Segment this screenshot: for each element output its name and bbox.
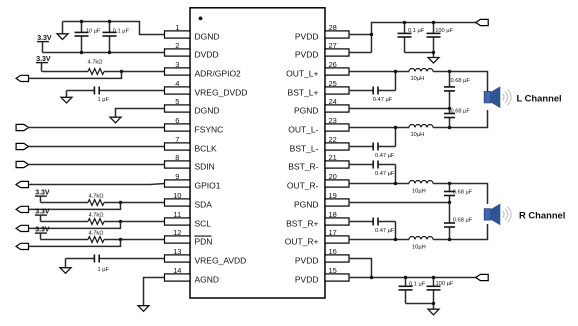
connector SDIN (off-page input) bbox=[16, 161, 28, 167]
speaker (R Channel) bbox=[484, 204, 511, 226]
wire: pin 24 PGND bbox=[349, 108, 450, 110]
svg-text:10µH: 10µH bbox=[412, 245, 426, 251]
resistor 4.7k (ADR/GPIO2 pull-up) bbox=[88, 60, 104, 75]
ground (VREG_AVDD filter) bbox=[60, 259, 71, 274]
node: PGND junction (R) bbox=[448, 201, 451, 204]
inductor L2 10uH (OUT_L-) bbox=[409, 125, 433, 138]
wire: pin 23 OUT_L- to inductor bbox=[349, 127, 409, 129]
capacitor C5 0.1 uF (PVDD top) bbox=[398, 23, 425, 53]
wire: cap bottoms to ground (top) bbox=[405, 53, 434, 58]
svg-text:100 µF: 100 µF bbox=[436, 281, 454, 287]
wire: OUT_L- filtered node to speaker (-) bbox=[433, 110, 488, 128]
svg-text:17: 17 bbox=[329, 228, 337, 237]
svg-text:23: 23 bbox=[329, 116, 337, 125]
connector BCLK (off-page input) bbox=[16, 143, 28, 149]
svg-text:DVDD: DVDD bbox=[195, 49, 219, 59]
wire: ADR connector to junction bbox=[29, 72, 122, 79]
connector ADR/GPIO2 (off-page, left) bbox=[16, 75, 28, 81]
svg-text:22: 22 bbox=[329, 135, 337, 144]
svg-text:14: 14 bbox=[173, 266, 181, 275]
svg-text:19: 19 bbox=[329, 191, 337, 200]
ground (VREG_DVDD filter) bbox=[61, 91, 72, 103]
connector PDN (off-page, left) bbox=[16, 243, 28, 249]
svg-text:0.68 µF: 0.68 µF bbox=[453, 190, 473, 196]
wire: cap bottoms to ground (bottom) bbox=[406, 304, 434, 310]
wire: 3.3V to resistor to pin 11 bbox=[41, 221, 165, 223]
wire: OUT_R+ filtered node to speaker (+) bbox=[433, 224, 488, 240]
svg-text:0.68 µF: 0.68 µF bbox=[451, 109, 471, 115]
pin 12 (PDN) stub, number and name bbox=[165, 228, 213, 246]
pin 8 (SDIN) stub, number and name bbox=[165, 153, 215, 171]
pin 27 (PVDD) stub, number and name bbox=[295, 41, 349, 59]
pin 9 (GPIO1) stub, number and name bbox=[165, 172, 221, 190]
wire: pin 26 OUT_L+ to inductor bbox=[349, 71, 409, 73]
svg-text:OUT_R+: OUT_R+ bbox=[285, 236, 319, 246]
wire: SDA connector to junction bbox=[29, 203, 121, 210]
svg-text:0.1 µF: 0.1 µF bbox=[409, 282, 426, 288]
capacitor C16 100 uF (PVDD bottom) bbox=[427, 278, 454, 304]
svg-text:0.47 µF: 0.47 µF bbox=[373, 97, 393, 103]
wire: pin 28 / pin 27 PVDD rail bbox=[349, 23, 476, 53]
pin 7 (BCLK) stub, number and name bbox=[165, 135, 218, 153]
wire: pin 16 PVDD to rail bbox=[349, 259, 372, 278]
ground (PVDD bottom decoupling) bbox=[428, 309, 439, 315]
wire: 3.3V to resistor to pin 3 bbox=[42, 71, 165, 73]
capacitor C3 1 uF (VREG_DVDD) bbox=[67, 87, 165, 104]
svg-text:0.68 µF: 0.68 µF bbox=[453, 218, 473, 224]
pin 3 (ADR/GPIO2) stub, number and name bbox=[165, 60, 242, 78]
label: R Channel bbox=[519, 210, 565, 221]
svg-text:20: 20 bbox=[329, 172, 337, 181]
svg-text:PVDD: PVDD bbox=[295, 274, 319, 284]
svg-text:VREG_DVDD: VREG_DVDD bbox=[195, 87, 248, 97]
pin 4 (VREG_DVDD) stub, number and name bbox=[165, 79, 248, 97]
wire: BST_L+ to switch node bbox=[395, 72, 397, 91]
IC U1 body (TAS audio amplifier) bbox=[190, 8, 325, 298]
pin 28 (PVDD) stub, number and name bbox=[295, 23, 349, 41]
svg-text:3: 3 bbox=[175, 60, 179, 69]
connector SCL (off-page, left) bbox=[16, 225, 28, 231]
wire: GPIO1 to pin 9 bbox=[29, 184, 165, 185]
svg-text:4.7kΩ: 4.7kΩ bbox=[89, 194, 104, 200]
ground (top-left, DGND rail) bbox=[57, 22, 68, 40]
svg-text:10µH: 10µH bbox=[412, 189, 426, 195]
capacitor C6 100 uF (PVDD top) bbox=[427, 23, 454, 53]
power 3.3V (DVDD) bbox=[37, 35, 52, 53]
pin 1 (DGND) stub, number and name bbox=[165, 23, 220, 41]
svg-text:BST_L-: BST_L- bbox=[290, 143, 319, 153]
svg-text:25: 25 bbox=[329, 79, 337, 88]
svg-text:SDIN: SDIN bbox=[195, 161, 215, 171]
svg-text:0.47 µF: 0.47 µF bbox=[375, 171, 395, 177]
capacitor C2 0.1 uF (DVDD decoupling) bbox=[103, 22, 130, 53]
wire: pin 15 PVDD rail bbox=[349, 277, 476, 279]
wire: SDIN to pin 8 bbox=[29, 164, 165, 166]
node: ADR junction bbox=[120, 70, 123, 73]
svg-text:OUT_L-: OUT_L- bbox=[288, 124, 318, 134]
capacitor C12 0.68 uF (OUT_R- to PGND) bbox=[444, 184, 473, 203]
speaker (L Channel) bbox=[484, 86, 511, 108]
wire: SCL connector to junction bbox=[29, 222, 121, 229]
svg-text:PVDD: PVDD bbox=[295, 49, 319, 59]
svg-text:OUT_L+: OUT_L+ bbox=[286, 68, 318, 78]
svg-text:7: 7 bbox=[175, 135, 179, 144]
pin 20 (OUT_R-) stub, number and name bbox=[287, 172, 349, 190]
svg-text:4.7kΩ: 4.7kΩ bbox=[88, 60, 103, 66]
svg-text:FSYNC: FSYNC bbox=[195, 124, 224, 134]
label: L Channel bbox=[517, 93, 562, 104]
wire: PDN connector to junction bbox=[29, 240, 121, 247]
resistor 4.7k (PDN pull-up) bbox=[88, 231, 104, 243]
wire: pin 5 DGND to ground bbox=[116, 109, 165, 118]
svg-text:DGND: DGND bbox=[195, 105, 220, 115]
pin 22 (BST_L-) stub, number and name bbox=[290, 135, 349, 153]
svg-text:11: 11 bbox=[173, 210, 181, 219]
junction dots (PVDD bottom caps) bbox=[404, 276, 435, 305]
svg-text:26: 26 bbox=[329, 60, 337, 69]
connector PVDD (off-page, top right) bbox=[476, 19, 488, 25]
svg-text:PGND: PGND bbox=[294, 199, 319, 209]
node: PVDD junction (pin 28) bbox=[370, 33, 373, 36]
resistor 4.7k (SDA pull-up) bbox=[88, 194, 104, 206]
capacitor C15 0.1 uF (PVDD bottom) bbox=[399, 278, 426, 304]
node: OUT_R- switch node bbox=[394, 182, 397, 185]
node: OUT_R+ switch node bbox=[394, 238, 397, 241]
svg-text:PVDD: PVDD bbox=[295, 31, 319, 41]
pin 15 (PVDD) stub, number and name bbox=[295, 266, 349, 284]
wire: pin 20 OUT_R- to inductor bbox=[349, 183, 409, 185]
capacitor C4 1 uF (VREG_AVDD) bbox=[66, 255, 165, 273]
svg-text:VREG_AVDD: VREG_AVDD bbox=[195, 255, 247, 265]
pin 26 (OUT_L+) stub, number and name bbox=[286, 60, 349, 78]
svg-text:OUT_R-: OUT_R- bbox=[287, 180, 319, 190]
wire: 3.3V to resistor to pin 12 bbox=[41, 239, 165, 241]
svg-text:BST_R-: BST_R- bbox=[288, 161, 318, 171]
svg-text:1 µF: 1 µF bbox=[98, 267, 110, 273]
svg-text:AGND: AGND bbox=[195, 274, 220, 284]
wire: BST_L- to switch node bbox=[395, 128, 397, 147]
pin 24 (PGND) stub, number and name bbox=[294, 97, 349, 115]
svg-text:ADR/GPIO2: ADR/GPIO2 bbox=[195, 68, 242, 78]
wire: BST_R- to switch node bbox=[395, 165, 397, 184]
pin 19 (PGND) stub, number and name bbox=[294, 191, 349, 209]
pin 6 (FSYNC) stub, number and name bbox=[165, 116, 224, 134]
wire: pin 19 PGND bbox=[349, 202, 450, 204]
node: OUT_R+ filter node bbox=[448, 238, 451, 241]
inductor L3 10uH (OUT_R-) bbox=[409, 181, 433, 195]
wire: BCLK to pin 7 bbox=[29, 146, 165, 148]
pin 17 (OUT_R+) stub, number and name bbox=[285, 228, 349, 246]
wire: pin 14 AGND to ground bbox=[144, 278, 165, 306]
svg-text:16: 16 bbox=[329, 247, 337, 256]
pin 25 (BST_L+) stub, number and name bbox=[288, 79, 349, 97]
svg-text:0.47 µF: 0.47 µF bbox=[375, 228, 395, 234]
node: PVDD junction (pin 16) bbox=[370, 276, 373, 279]
svg-text:0.1 µF: 0.1 µF bbox=[113, 28, 130, 34]
capacitor C13 0.68 uF (PGND to OUT_R+) bbox=[444, 203, 473, 240]
svg-text:12: 12 bbox=[173, 228, 181, 237]
connector GPIO1 (off-page) bbox=[16, 181, 28, 187]
capacitor C10 0.47 uF (BST_L-) bbox=[349, 143, 396, 159]
pin 23 (OUT_L-) stub, number and name bbox=[288, 116, 349, 134]
svg-text:L Channel: L Channel bbox=[517, 93, 562, 104]
svg-text:18: 18 bbox=[329, 210, 337, 219]
node: PDN junction bbox=[119, 238, 122, 241]
svg-text:9: 9 bbox=[175, 172, 179, 181]
resistor 4.7k (SCL pull-up) bbox=[88, 213, 104, 225]
ground (AGND) bbox=[138, 306, 149, 312]
wire: OUT_L+ filtered node to speaker (+) bbox=[433, 72, 488, 99]
svg-text:100 µF: 100 µF bbox=[435, 28, 453, 34]
capacitor C8 0.68 uF (OUT_L+ to PGND) bbox=[444, 72, 470, 109]
node: PGND junction (L) bbox=[448, 107, 451, 110]
node: OUT_R- filter node bbox=[448, 182, 451, 185]
wire: BST_R+ to switch node bbox=[395, 222, 397, 240]
svg-text:27: 27 bbox=[329, 41, 337, 50]
node: SDA junction bbox=[119, 201, 122, 204]
svg-text:21: 21 bbox=[329, 153, 337, 162]
IC pin-1 indicator dot bbox=[199, 17, 203, 21]
node: OUT_L+ filter node bbox=[448, 70, 451, 73]
capacitor C9 0.68 uF (PGND to OUT_L-) bbox=[444, 109, 470, 128]
svg-text:GPIO1: GPIO1 bbox=[195, 180, 221, 190]
inductor L4 10uH (OUT_R+) bbox=[409, 237, 433, 251]
node: OUT_L- switch node bbox=[394, 126, 397, 129]
connector FSYNC (off-page input) bbox=[16, 124, 28, 130]
power 3.3V (ADR/GPIO2 pull-up) bbox=[36, 56, 51, 72]
svg-text:4.7kΩ: 4.7kΩ bbox=[89, 231, 104, 237]
node: SCL junction bbox=[119, 220, 122, 223]
svg-text:DGND: DGND bbox=[195, 31, 220, 41]
pin 21 (BST_R-) stub, number and name bbox=[288, 153, 349, 171]
capacitor C7 0.47 uF (BST_L+) bbox=[349, 87, 396, 103]
power 3.3V (SCL pull-up) bbox=[35, 209, 50, 222]
connector PVDD (off-page, bottom right) bbox=[476, 274, 488, 280]
capacitor C14 0.47 uF (BST_R+) bbox=[349, 218, 396, 234]
svg-text:0.68 µF: 0.68 µF bbox=[451, 78, 471, 84]
svg-text:1 µF: 1 µF bbox=[98, 97, 110, 103]
pin 2 (DVDD) stub, number and name bbox=[165, 41, 219, 59]
svg-text:PDN: PDN bbox=[195, 236, 213, 246]
wire: OUT_R- filtered node to speaker (-) bbox=[433, 184, 488, 205]
pin 13 (VREG_AVDD) stub, number and name bbox=[165, 247, 247, 265]
ground (pin 5 DGND) bbox=[110, 117, 121, 123]
svg-text:6: 6 bbox=[175, 116, 179, 125]
wire: 3.3V to resistor to pin 10 bbox=[41, 202, 165, 204]
pin 16 (PVDD) stub, number and name bbox=[295, 247, 349, 265]
svg-text:R Channel: R Channel bbox=[519, 210, 565, 221]
ground (PVDD top decoupling) bbox=[428, 58, 439, 64]
node: OUT_L- filter node bbox=[448, 126, 451, 129]
svg-text:PVDD: PVDD bbox=[295, 255, 319, 265]
junction dots (PVDD top caps) bbox=[403, 21, 435, 54]
svg-text:10µH: 10µH bbox=[411, 132, 425, 138]
svg-text:28: 28 bbox=[329, 23, 337, 32]
wire: DVDD rail to pin 2 bbox=[43, 52, 165, 54]
junction dots on DGND/DVDD rails bbox=[80, 20, 111, 54]
svg-text:PGND: PGND bbox=[294, 105, 319, 115]
svg-text:10 µF: 10 µF bbox=[86, 28, 101, 34]
wire: pin 17 OUT_R+ to inductor bbox=[349, 239, 409, 241]
svg-text:4: 4 bbox=[175, 79, 179, 88]
svg-text:10µH: 10µH bbox=[411, 76, 425, 82]
svg-text:BST_R+: BST_R+ bbox=[286, 218, 318, 228]
svg-text:4.7kΩ: 4.7kΩ bbox=[89, 213, 104, 219]
svg-text:SCL: SCL bbox=[195, 218, 212, 228]
capacitor C11 0.47 uF (BST_R-) bbox=[349, 161, 396, 177]
pin 11 (SCL) stub, number and name bbox=[165, 210, 212, 228]
wire: DGND top rail to pin 1 bbox=[63, 22, 165, 35]
svg-text:BCLK: BCLK bbox=[195, 143, 218, 153]
svg-text:0.1 µF: 0.1 µF bbox=[408, 28, 425, 34]
pin 10 (SDA) stub, number and name bbox=[165, 191, 213, 209]
svg-text:13: 13 bbox=[173, 247, 181, 256]
svg-text:15: 15 bbox=[329, 266, 337, 275]
connector SDA (off-page, left) bbox=[16, 206, 28, 212]
svg-text:8: 8 bbox=[175, 153, 179, 162]
svg-text:5: 5 bbox=[175, 97, 179, 106]
power 3.3V (PDN pull-up) bbox=[35, 227, 50, 240]
svg-text:10: 10 bbox=[173, 191, 181, 200]
svg-text:24: 24 bbox=[329, 97, 337, 106]
svg-text:1: 1 bbox=[175, 23, 179, 32]
pin 18 (BST_R+) stub, number and name bbox=[286, 210, 349, 228]
pin 14 (AGND) stub, number and name bbox=[165, 266, 220, 284]
power 3.3V (SDA pull-up) bbox=[35, 190, 50, 203]
inductor L1 10uH (OUT_L+) bbox=[409, 69, 433, 82]
wire: FSYNC to pin 6 bbox=[29, 127, 165, 129]
capacitor C1 10 uF (DVDD decoupling) bbox=[75, 22, 101, 53]
pin 5 (DGND) stub, number and name bbox=[165, 97, 220, 115]
svg-text:2: 2 bbox=[175, 41, 179, 50]
svg-text:SDA: SDA bbox=[195, 199, 213, 209]
node: OUT_L+ switch node bbox=[394, 70, 397, 73]
svg-text:BST_L+: BST_L+ bbox=[288, 87, 319, 97]
svg-text:0.47 µF: 0.47 µF bbox=[375, 153, 395, 159]
